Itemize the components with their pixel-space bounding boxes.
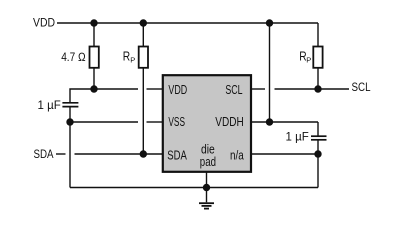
wire left vertical down bbox=[69, 122, 71, 188]
capacitor C1 left 1uF plates bbox=[62, 103, 78, 107]
node n/a-cap bbox=[314, 150, 321, 157]
svg-text:pad: pad bbox=[200, 154, 216, 169]
wire top-right corner down to right Rp bbox=[317, 23, 319, 47]
node rail/VDDH drop bbox=[266, 19, 273, 26]
resistor R1 4.7 ohm body bbox=[90, 47, 99, 68]
wire VSS row left segment bbox=[70, 121, 138, 123]
wire bottom rail bbox=[70, 187, 318, 189]
node VDDH bbox=[266, 118, 273, 125]
wire VDD pin row left segment bbox=[70, 89, 138, 102]
capacitor C2 right 1uF plates bbox=[311, 136, 327, 140]
wire SDA stub from label bbox=[56, 153, 66, 155]
wire VDD pin row right segment bbox=[147, 88, 163, 90]
svg-text:P: P bbox=[130, 56, 135, 65]
wire SDA row bbox=[75, 153, 163, 155]
wire drop to 4.7 ohm resistor bbox=[93, 23, 95, 47]
svg-text:SCL: SCL bbox=[352, 82, 372, 94]
wire n/a row bbox=[251, 153, 319, 155]
wire ground stem bbox=[206, 188, 208, 203]
svg-text:n/a: n/a bbox=[230, 147, 244, 162]
node rail/RpL bbox=[140, 19, 147, 26]
wire right cap stem down to n/a row bbox=[317, 140, 319, 154]
svg-text:VDD: VDD bbox=[168, 82, 187, 97]
wire VDDH row bbox=[251, 121, 319, 123]
node VDD pin row bbox=[90, 85, 97, 92]
node dots bbox=[66, 19, 321, 191]
wire SCL pin stub bbox=[251, 88, 266, 90]
wire top VDD rail bbox=[57, 22, 318, 24]
node ground bbox=[203, 184, 210, 191]
wire SCL row to label bbox=[275, 88, 350, 90]
wire VDDH corner down to right cap bbox=[317, 122, 319, 136]
wire left Rp bottom down to SDA row bbox=[142, 68, 144, 155]
svg-text:SDA: SDA bbox=[167, 147, 187, 162]
wire right Rp bottom to SCL row bbox=[317, 68, 319, 90]
wire right vertical bottom rail up to n/a bbox=[317, 154, 319, 188]
svg-text:SCL: SCL bbox=[225, 82, 242, 97]
resistor R2 left Rp body bbox=[139, 47, 148, 68]
node left cap/VSS bbox=[66, 118, 73, 125]
ground symbol bbox=[199, 203, 214, 208]
node rail/4.7 bbox=[90, 19, 97, 26]
wire left cap stem to VSS row bbox=[69, 107, 71, 123]
svg-text:P: P bbox=[306, 56, 311, 65]
svg-text:VDD: VDD bbox=[33, 18, 55, 30]
wire 4.7 ohm bottom to VDD row bbox=[93, 68, 95, 90]
svg-text:VSS: VSS bbox=[168, 114, 185, 129]
resistor R3 right Rp body bbox=[313, 47, 322, 68]
svg-text:SDA: SDA bbox=[34, 149, 54, 161]
svg-text:VDDH: VDDH bbox=[215, 114, 243, 129]
node SDA/RpL bbox=[140, 150, 147, 157]
svg-text:1 µF: 1 µF bbox=[286, 131, 309, 143]
wire die pad stem bbox=[206, 172, 208, 188]
IC U1 body bbox=[163, 75, 251, 172]
svg-text:1 µF: 1 µF bbox=[38, 100, 61, 112]
node SCL/RpR bbox=[314, 85, 321, 92]
svg-text:4.7 Ω: 4.7 Ω bbox=[61, 50, 85, 64]
svg-text:R: R bbox=[123, 49, 130, 63]
wire drop to left Rp bbox=[142, 23, 144, 47]
wire VSS row right segment bbox=[147, 121, 163, 123]
wire right vertical VDD to VDDH bbox=[269, 23, 271, 122]
